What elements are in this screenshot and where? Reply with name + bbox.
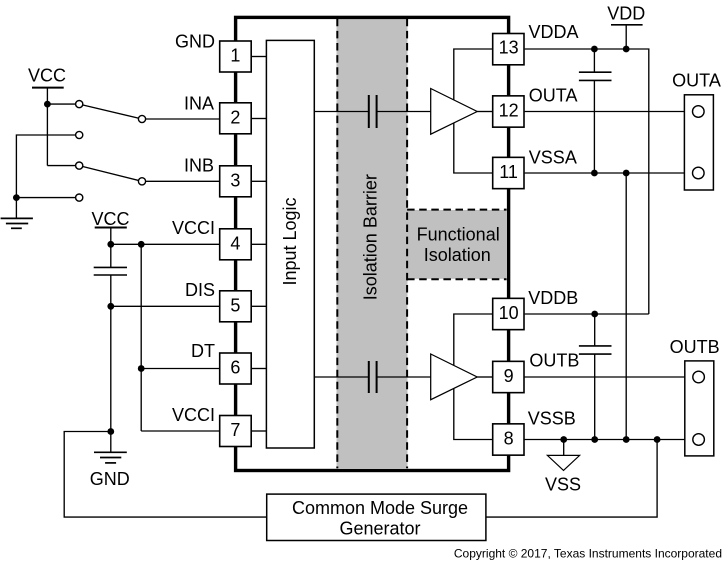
VCC supply bar A — [32, 87, 64, 89]
svg-text:VSSA: VSSA — [529, 148, 577, 168]
svg-text:OUTA: OUTA — [529, 85, 578, 105]
wire to DIS pin 5 — [111, 305, 220, 307]
wire pin7 to input logic — [251, 430, 266, 432]
wire pin10 to driver B top — [454, 314, 493, 365]
svg-text:1: 1 — [230, 46, 240, 66]
wire driver B out to pin 9 — [477, 376, 493, 378]
pin 2 box — [220, 103, 252, 134]
VSS symbol (open triangle) — [547, 455, 579, 470]
pin 7 box — [220, 416, 252, 447]
driver op-amp B — [431, 354, 478, 400]
wire pin13 to driver A top — [454, 49, 493, 100]
junction VDD node — [623, 46, 630, 53]
pin 1 box — [220, 41, 252, 72]
junction VSSA cap node — [591, 170, 598, 177]
functional isolation gray box — [407, 210, 507, 279]
svg-text:5: 5 — [230, 296, 240, 316]
wire inner rail to pin 6/7 — [140, 244, 142, 431]
svg-text:DIS: DIS — [185, 280, 215, 300]
svg-text:VCCI: VCCI — [172, 218, 215, 238]
svg-text:2: 2 — [230, 108, 240, 128]
wire VSS stub — [563, 440, 565, 456]
svg-text:Isolation: Isolation — [424, 245, 491, 265]
wire VCC rail to switch S2 — [47, 165, 79, 167]
junction VSSB cap node — [591, 436, 598, 443]
svg-text:7: 7 — [230, 420, 240, 440]
OUTB connector — [685, 361, 714, 456]
wire input logic to barrier cap B — [314, 376, 369, 378]
wire pin1 to input logic — [251, 56, 266, 58]
wire pin2 to input logic — [251, 118, 266, 120]
pin 12 box — [493, 96, 524, 127]
wire pin6 to input logic — [251, 368, 266, 370]
ground symbol A — [1, 218, 33, 228]
wire VDDB row — [525, 313, 649, 315]
junction DT node — [138, 365, 145, 372]
wire barrier cap B to driver B — [377, 376, 431, 378]
pin 3 box — [220, 166, 252, 197]
capacitor C2 (VDDA bypass) — [579, 72, 612, 80]
wire VCC A to switch — [47, 103, 79, 105]
wire VSSA to VSSB — [625, 173, 627, 440]
wire pin4 to input logic — [251, 243, 266, 245]
wire VSSB to connector — [524, 439, 698, 441]
svg-text:8: 8 — [504, 429, 514, 449]
functional isolation bottom dashed edge — [407, 278, 507, 280]
junction GND node — [107, 428, 114, 435]
wire pin3 to input logic — [251, 180, 266, 182]
input logic block — [266, 40, 314, 448]
svg-text:INB: INB — [184, 155, 214, 175]
svg-text:DT: DT — [191, 341, 215, 361]
svg-text:VSS: VSS — [545, 475, 581, 495]
wire switch S2 lower throw to ground rail — [16, 197, 79, 199]
junction ground rail node — [13, 194, 20, 201]
svg-text:Copyright © 2017, Texas Instru: Copyright © 2017, Texas Instruments Inco… — [454, 547, 722, 561]
switch S1 blade — [79, 104, 142, 119]
OUTA connector — [684, 95, 713, 190]
pin 4 box — [220, 229, 252, 260]
ground symbol B — [94, 452, 127, 463]
junction DIS node — [107, 303, 114, 310]
switch S1 contacts — [76, 101, 146, 139]
isolation barrier left dashed line — [336, 19, 338, 468]
wire VCC A stub/rail — [46, 88, 48, 166]
VDD supply bar — [611, 24, 643, 26]
junction VSSA rail node — [623, 170, 630, 177]
isolation barrier right dashed line — [406, 19, 408, 468]
wire cap A bottom — [593, 80, 595, 173]
VCC supply bar B — [95, 227, 127, 229]
svg-text:OUTB: OUTB — [670, 337, 720, 357]
wire VSSB to surge generator — [486, 440, 657, 518]
wire to INA pin 2 — [142, 118, 220, 120]
junction VCCI rail node A — [107, 241, 114, 248]
functional isolation top dashed edge — [407, 209, 507, 211]
wire to VCCI pin 7 — [141, 430, 220, 432]
wire VCC2 rail — [110, 228, 112, 268]
svg-text:10: 10 — [499, 303, 519, 323]
svg-text:Input Logic: Input Logic — [280, 197, 300, 285]
pin 6 box — [220, 353, 252, 384]
svg-text:VCC: VCC — [91, 209, 129, 229]
svg-text:9: 9 — [504, 366, 514, 386]
wire switch S1 lower throw to ground rail — [16, 135, 79, 218]
wire OUTB to connector — [524, 376, 698, 378]
capacitor barrier A — [369, 95, 377, 128]
junction VDDB cap node — [591, 311, 598, 318]
capacitor C1 (VCC bypass) — [94, 267, 127, 275]
svg-text:VDD: VDD — [607, 4, 645, 24]
wire pin8 to driver B bottom — [454, 389, 493, 440]
svg-text:12: 12 — [499, 101, 519, 121]
wire to DT pin 6 — [141, 368, 220, 370]
wire VDDA rail — [525, 49, 649, 314]
svg-text:Isolation Barrier: Isolation Barrier — [361, 174, 381, 300]
svg-text:4: 4 — [230, 234, 240, 254]
svg-text:OUTB: OUTB — [529, 351, 579, 371]
svg-text:VDDA: VDDA — [529, 22, 579, 42]
svg-text:VCC: VCC — [28, 66, 66, 86]
switch S2 contacts — [76, 162, 146, 201]
wire VSSA to connector — [525, 172, 699, 174]
wire cap B bottom — [594, 354, 596, 439]
svg-text:6: 6 — [230, 358, 240, 378]
svg-text:INA: INA — [184, 93, 214, 113]
svg-text:OUTA: OUTA — [672, 71, 721, 91]
svg-text:11: 11 — [499, 162, 518, 182]
switch S2 blade — [79, 166, 142, 182]
svg-text:13: 13 — [499, 38, 519, 58]
driver op-amp A — [431, 89, 478, 135]
svg-text:GND: GND — [90, 469, 130, 489]
wire input logic to barrier cap A — [314, 111, 369, 113]
pin 13 box — [493, 34, 524, 65]
common mode surge generator box — [267, 494, 486, 540]
svg-text:VCCI: VCCI — [172, 405, 215, 425]
wire driver A out to pin 12 — [477, 111, 493, 113]
wire GND node to surge generator — [64, 432, 267, 518]
wire barrier cap A to driver A — [377, 111, 431, 113]
capacitor barrier B — [369, 361, 377, 393]
isolation barrier gray bar — [337, 19, 408, 468]
wire to INB pin 3 — [142, 180, 220, 182]
pin 5 box — [220, 291, 252, 322]
svg-text:Generator: Generator — [339, 519, 420, 539]
pin 10 box — [493, 298, 524, 329]
junction VSSB rail node — [623, 436, 630, 443]
svg-text:3: 3 — [230, 171, 240, 191]
junction VCC switch node — [44, 101, 51, 108]
svg-text:VDDB: VDDB — [528, 288, 578, 308]
svg-text:GND: GND — [175, 32, 215, 52]
pin 8 box — [493, 424, 524, 455]
wire to VCCI pin 4 — [111, 243, 220, 245]
svg-text:Functional: Functional — [417, 225, 500, 245]
capacitor C3 (VDDB bypass) — [579, 346, 612, 354]
svg-text:Common Mode Surge: Common Mode Surge — [292, 498, 468, 518]
wire OUTA to connector — [525, 111, 699, 113]
wire cap B top — [594, 314, 596, 346]
svg-text:VSSB: VSSB — [528, 409, 576, 429]
wire pin11 to driver A bottom — [454, 123, 493, 173]
junction VSS node — [560, 436, 567, 443]
pin 11 box — [493, 157, 524, 188]
wire VDD stub — [625, 25, 627, 49]
junction VCCI rail node B — [138, 241, 145, 248]
junction VDDA cap node — [591, 46, 598, 53]
pin 9 box — [493, 361, 524, 392]
junction VSSB surge node — [654, 436, 661, 443]
IC body outline U1 — [236, 17, 509, 470]
wire pin5 to input logic — [251, 305, 266, 307]
wire cap A top — [593, 49, 595, 72]
